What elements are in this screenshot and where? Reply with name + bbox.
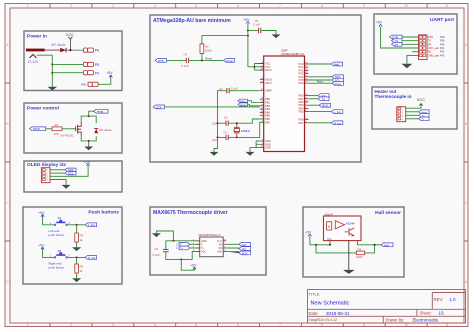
svg-text:Thermocouple in: Thermocouple in bbox=[375, 94, 412, 99]
net flag Heat bbox=[94, 109, 109, 113]
svg-text:P41: P41 bbox=[440, 47, 445, 50]
svg-text:+5V: +5V bbox=[38, 211, 45, 215]
net flag MOS input bbox=[30, 127, 46, 131]
net flag DTR bbox=[390, 35, 403, 39]
svg-text:C1: C1 bbox=[224, 115, 228, 119]
junction C5 tap bbox=[247, 30, 249, 32]
svg-text:2018-05-31: 2018-05-31 bbox=[326, 311, 350, 316]
svg-text:8: 8 bbox=[321, 323, 323, 327]
svg-text:OLED display i2c: OLED display i2c bbox=[27, 162, 67, 168]
net flag TX bbox=[318, 97, 329, 101]
ground bbox=[72, 247, 81, 251]
svg-text:+5V: +5V bbox=[243, 18, 250, 22]
section box: OLED display i2c bbox=[24, 161, 122, 192]
svg-text:M7 diode: M7 diode bbox=[99, 128, 112, 132]
resistor R5 1k bbox=[75, 264, 84, 273]
svg-text:+5V: +5V bbox=[84, 160, 91, 164]
wire SCK to flag bbox=[226, 252, 239, 253]
wire MOSI to PB2 bbox=[248, 104, 260, 105]
wire C4 to Reset flag bbox=[189, 59, 224, 61]
svg-text:8: 8 bbox=[321, 4, 323, 8]
section box: Push buttons bbox=[23, 207, 122, 284]
svg-text:Power control: Power control bbox=[27, 106, 59, 112]
svg-text:MAX6675 Thermocouple driver: MAX6675 Thermocouple driver bbox=[153, 210, 228, 216]
junction GND tap bbox=[88, 140, 90, 142]
power flag +5V uart bbox=[376, 21, 383, 27]
svg-text:Power in: Power in bbox=[27, 34, 47, 40]
ground bbox=[246, 152, 255, 156]
svg-text:Drawn By:: Drawn By: bbox=[386, 318, 405, 323]
svg-text:6: 6 bbox=[237, 4, 239, 8]
svg-text:1: 1 bbox=[27, 4, 29, 8]
wire pin1 to SDA bbox=[50, 169, 65, 171]
svg-text:Hall sensor: Hall sensor bbox=[375, 210, 401, 216]
op-amp U2 MAX6675ISA+T body bbox=[199, 233, 224, 257]
wire to R5 bbox=[76, 257, 78, 264]
junction GND node bbox=[172, 240, 174, 242]
wire S1 to L_but bbox=[67, 224, 85, 226]
U1 right pin names bbox=[298, 62, 304, 125]
svg-text:S2: S2 bbox=[58, 249, 62, 253]
svg-text:Hall: Hall bbox=[334, 62, 339, 66]
svg-text:P39: P39 bbox=[440, 40, 445, 43]
svg-text:A3144: A3144 bbox=[346, 221, 355, 225]
svg-text:M7 diode: M7 diode bbox=[52, 43, 66, 47]
junction VCC node bbox=[69, 49, 71, 51]
wire to P5 bbox=[52, 63, 83, 65]
svg-text:AVCC: AVCC bbox=[265, 68, 272, 72]
svg-text:MAX6675ISA+T: MAX6675ISA+T bbox=[199, 233, 221, 237]
svg-text:R_but: R_but bbox=[334, 121, 341, 125]
power flag VCC bbox=[66, 33, 74, 50]
U2 pin names bbox=[201, 240, 207, 254]
wire out pin to Hall flag bbox=[358, 241, 382, 245]
wire T- to pin2 bbox=[190, 243, 200, 245]
junction Heat tap bbox=[88, 115, 90, 117]
ground bbox=[402, 64, 413, 68]
section box: ATMega328p-AU bare minimum bbox=[150, 15, 361, 162]
net flag RX bbox=[318, 94, 329, 98]
wire R5 to ground bbox=[76, 273, 78, 278]
svg-text:P4: P4 bbox=[95, 71, 99, 75]
junction crystal bottom bbox=[236, 136, 238, 138]
wire VCC to header pin1 bbox=[406, 106, 421, 109]
UART header pin numbers bbox=[440, 36, 445, 57]
wire source loop bottom bbox=[81, 136, 96, 141]
section box: Power in bbox=[24, 31, 122, 91]
net flag MOS bbox=[319, 103, 330, 107]
junction VCC bus bbox=[254, 66, 256, 68]
wire to R4 bbox=[76, 225, 78, 233]
svg-text:Date:: Date: bbox=[309, 311, 319, 316]
svg-text:1.0: 1.0 bbox=[450, 297, 457, 302]
wire pin3 to T+ bbox=[406, 114, 419, 116]
svg-text:AREF: AREF bbox=[265, 89, 272, 93]
wire C1 to PB6 bbox=[228, 119, 260, 123]
wire PD5 to L_but bbox=[309, 111, 332, 113]
svg-text:1: 1 bbox=[27, 323, 29, 327]
svg-text:L_but: L_but bbox=[334, 110, 341, 114]
wire pin4 to ground bbox=[50, 180, 66, 185]
net flag T+ bbox=[419, 114, 429, 118]
capacitor C5 0.1uF bbox=[253, 19, 261, 33]
ground bbox=[48, 87, 58, 91]
wire GND node to C6 bbox=[166, 241, 174, 250]
wire +5V stem bbox=[247, 24, 249, 67]
svg-text:DTR: DTR bbox=[158, 59, 164, 63]
wire pin2 to Heat bbox=[406, 111, 419, 113]
power flag +5V bbox=[106, 71, 113, 77]
svg-text:RX: RX bbox=[428, 43, 432, 46]
net flag DTR bbox=[155, 59, 166, 63]
ground bbox=[210, 152, 219, 156]
wire gnd rail to C2 bbox=[218, 123, 227, 137]
svg-text:SCK: SCK bbox=[242, 251, 248, 255]
section box: Power control bbox=[24, 103, 122, 153]
net flag Reset bbox=[224, 59, 235, 63]
wire GND_uart to ground bbox=[407, 55, 419, 63]
connector P6 bbox=[83, 48, 99, 53]
wire SO to flag bbox=[226, 243, 239, 245]
svg-text:New Schematic: New Schematic bbox=[311, 301, 350, 307]
svg-text:+5V: +5V bbox=[305, 230, 312, 234]
junction C2 gnd bbox=[217, 136, 219, 138]
connector J1 DC jack 12-24V bbox=[26, 49, 45, 64]
svg-text:10kΩ: 10kΩ bbox=[205, 49, 212, 53]
net flag SCL bbox=[332, 78, 344, 82]
junction out node bbox=[374, 244, 376, 246]
svg-text:VCC: VCC bbox=[66, 33, 74, 37]
ground bbox=[84, 141, 93, 150]
svg-text:3: 3 bbox=[112, 323, 114, 327]
wire DTR to header bbox=[402, 36, 419, 38]
svg-text:ADC7: ADC7 bbox=[265, 81, 272, 85]
ground bbox=[343, 270, 355, 274]
svg-text:SCL: SCL bbox=[68, 172, 74, 176]
svg-text:P38: P38 bbox=[440, 36, 445, 39]
resistor R3 10k bbox=[356, 248, 365, 260]
wire VCC bus to IC bbox=[248, 64, 264, 71]
wire PC6 to Reset bbox=[309, 82, 333, 84]
wire C6 to +5V rail bbox=[166, 252, 200, 260]
power flag +5V bbox=[84, 160, 91, 166]
net flag SCL bbox=[65, 172, 76, 176]
net flag R_but bbox=[331, 121, 343, 125]
svg-text:Reset: Reset bbox=[206, 57, 213, 60]
net flag MISO bbox=[238, 99, 248, 103]
svg-text:ATMega328p-AU bare minimum: ATMega328p-AU bare minimum bbox=[153, 18, 231, 24]
svg-text:10: 10 bbox=[404, 4, 408, 8]
svg-text:T-: T- bbox=[201, 243, 203, 246]
svg-text:B: B bbox=[6, 122, 8, 126]
svg-text:7: 7 bbox=[279, 4, 281, 8]
svg-text:T+: T+ bbox=[180, 247, 184, 250]
junction +5V tap bbox=[180, 258, 182, 260]
U1 right pin stubs bbox=[305, 64, 309, 123]
wire GND pin to ground bbox=[348, 241, 350, 270]
junction C1 gnd bbox=[217, 122, 219, 124]
svg-text:1/1: 1/1 bbox=[438, 310, 445, 315]
wire +5V to R2 bbox=[202, 36, 248, 44]
wire P3 to +5V bbox=[98, 77, 111, 84]
U1 left pin stubs bbox=[260, 64, 264, 148]
junction R2 rail tap bbox=[247, 35, 249, 37]
diode D1 M7 bbox=[45, 43, 66, 52]
svg-text:0.1uF: 0.1uF bbox=[153, 253, 160, 257]
diode D2 M7 flyback bbox=[94, 128, 112, 134]
net flag TX bbox=[392, 39, 403, 43]
wire to P4 bbox=[52, 72, 83, 74]
svg-text:push button: push button bbox=[49, 233, 65, 237]
connector thermocouple T- flag bbox=[176, 243, 190, 247]
svg-text:P43: P43 bbox=[440, 54, 445, 57]
wire NC stub bbox=[412, 51, 419, 53]
svg-text:7: 7 bbox=[279, 323, 281, 327]
net flag Hall bbox=[381, 243, 393, 247]
wire C2 to PB7 bbox=[228, 122, 264, 137]
wire diode to P6 bbox=[66, 49, 83, 51]
wire PD7 to R_but bbox=[309, 122, 332, 124]
net flag R_but bbox=[85, 256, 96, 260]
svg-text:/CS: /CS bbox=[218, 247, 223, 250]
connector P5 bbox=[83, 62, 99, 67]
net flag Reset bbox=[332, 82, 344, 86]
svg-text:GND_uart: GND_uart bbox=[428, 54, 440, 57]
svg-text:+5V: +5V bbox=[38, 244, 45, 248]
svg-text:P3: P3 bbox=[82, 83, 86, 87]
svg-text:MOS: MOS bbox=[322, 104, 329, 108]
wire gnd rail to C1 bbox=[218, 122, 227, 124]
power flag +5V hall bbox=[305, 230, 312, 236]
wire pin3 to +5V bbox=[50, 166, 88, 177]
svg-text:GND: GND bbox=[265, 146, 271, 150]
wire +5V to S2 bbox=[43, 250, 54, 258]
svg-text:P5: P5 bbox=[95, 63, 99, 67]
svg-text:PD7: PD7 bbox=[298, 121, 304, 125]
ground bbox=[152, 233, 161, 237]
svg-text:9: 9 bbox=[363, 323, 365, 327]
wire PD0 to RX bbox=[309, 95, 319, 97]
power flag +5V right button bbox=[38, 244, 45, 250]
wire ground to GND pin bbox=[156, 231, 199, 241]
U2 pin stubs bbox=[197, 241, 227, 252]
svg-text:L_but: L_but bbox=[88, 223, 95, 227]
title block bbox=[308, 290, 466, 324]
wire +5V to rail bbox=[181, 259, 194, 270]
wire T+ to pin3 bbox=[190, 247, 200, 249]
junction P4 tap bbox=[51, 72, 53, 74]
svg-text:+5V: +5V bbox=[190, 263, 197, 267]
svg-text:0.1uF: 0.1uF bbox=[231, 87, 238, 91]
crystal Y1 16MHz bbox=[234, 123, 250, 137]
svg-text:P40: P40 bbox=[440, 43, 445, 46]
net flag T- bbox=[419, 117, 429, 121]
svg-text:3: 3 bbox=[112, 4, 114, 8]
svg-text:9: 9 bbox=[363, 4, 365, 8]
svg-text:2: 2 bbox=[70, 4, 72, 8]
svg-text:T-: T- bbox=[422, 117, 424, 121]
U2 pin numbers bbox=[193, 239, 226, 252]
wire drain loop top bbox=[81, 116, 96, 123]
svg-text:Hall: Hall bbox=[384, 243, 389, 247]
svg-text:UART port: UART port bbox=[430, 17, 454, 23]
svg-text:PC6: PC6 bbox=[298, 81, 304, 85]
wire SCK to PB5 bbox=[165, 106, 260, 108]
U1 right pin numbers bbox=[305, 63, 308, 124]
svg-text:+5V: +5V bbox=[106, 71, 113, 75]
connector thermocouple T+ flag bbox=[176, 246, 190, 250]
ground bbox=[62, 185, 71, 189]
U1 left pin names bbox=[265, 62, 272, 150]
svg-text:16MHz: 16MHz bbox=[241, 129, 250, 133]
net flag Heat bbox=[419, 110, 429, 114]
transistor U3 A3144 hall sensor body bbox=[324, 212, 362, 240]
wire MOS to R1 bbox=[46, 128, 52, 130]
svg-text:12-24V: 12-24V bbox=[28, 60, 40, 64]
svg-text:DTR: DTR bbox=[428, 36, 433, 39]
svg-text:TX: TX bbox=[322, 97, 326, 101]
svg-text:PB7: PB7 bbox=[265, 120, 270, 124]
capacitor C3 0.1uF bbox=[219, 87, 238, 94]
pushbutton S2 bbox=[50, 249, 71, 258]
wire C3 to gnd rail bbox=[218, 91, 227, 123]
resistor R4 1k bbox=[75, 233, 84, 242]
svg-text:10kΩ: 10kΩ bbox=[356, 255, 363, 259]
pushbutton S1 bbox=[50, 216, 71, 225]
ground bbox=[272, 34, 281, 38]
node label Reset bbox=[317, 81, 324, 84]
net flag L_but bbox=[85, 223, 96, 227]
label left end push button bbox=[49, 229, 65, 237]
wire pin4 to T- bbox=[406, 118, 419, 120]
wire PD3 to MOS bbox=[309, 104, 320, 106]
junction P5 tap bbox=[51, 63, 53, 65]
wire +5V to VCC_uart pin bbox=[381, 27, 419, 48]
wire PD1 to TX bbox=[309, 98, 319, 100]
wire GND pins bus bbox=[250, 141, 260, 152]
net flag SO bbox=[239, 242, 251, 246]
svg-text:SCK: SCK bbox=[217, 251, 222, 254]
resistor R2 10k bbox=[200, 44, 212, 54]
svg-text:P42: P42 bbox=[440, 51, 445, 54]
svg-text:Push buttons: Push buttons bbox=[88, 210, 119, 216]
svg-text:PD5: PD5 bbox=[298, 110, 304, 114]
svg-text:RX: RX bbox=[395, 43, 399, 47]
svg-text:Electronoobs: Electronoobs bbox=[413, 318, 439, 323]
svg-text:0.1uF: 0.1uF bbox=[182, 64, 189, 68]
svg-text:SCK: SCK bbox=[156, 105, 162, 109]
net flag MOSI bbox=[238, 103, 248, 107]
connector H1 OLED header bbox=[41, 168, 50, 183]
svg-text:100: 100 bbox=[54, 132, 59, 136]
power flag +5V bbox=[190, 263, 197, 269]
net flag SDA bbox=[65, 168, 76, 172]
wire CS to flag bbox=[226, 247, 239, 250]
wire S2 to R_but bbox=[67, 256, 85, 258]
connector P4 bbox=[83, 71, 99, 76]
wire MISO to PB1 bbox=[248, 101, 260, 103]
capacitor C2 22pF bbox=[212, 131, 228, 142]
net flag CS bbox=[239, 247, 251, 251]
wire PC0 to Hall bbox=[309, 63, 332, 65]
transistor Q1 2N P5100 bbox=[60, 123, 81, 138]
wire R4 to ground bbox=[76, 242, 78, 247]
svg-text:MOS: MOS bbox=[33, 127, 40, 131]
power flag VCC heater bbox=[417, 98, 425, 106]
svg-text:11: 11 bbox=[445, 323, 449, 327]
svg-text:TITLE:: TITLE: bbox=[309, 291, 321, 296]
power flag +5V main bbox=[243, 18, 250, 24]
svg-text:Reset: Reset bbox=[226, 59, 233, 63]
wire pin2 to SCL bbox=[50, 172, 65, 174]
svg-text:Heat: Heat bbox=[97, 110, 104, 114]
svg-text:T+: T+ bbox=[201, 247, 205, 250]
wire +5V to Vcc pin bbox=[310, 237, 330, 245]
junction Vcc stub bbox=[329, 244, 331, 246]
svg-text:C4: C4 bbox=[184, 52, 188, 56]
net flag Hall bbox=[331, 62, 342, 66]
svg-text:6: 6 bbox=[237, 323, 239, 327]
junction pullup tap bbox=[315, 244, 317, 246]
UART header pin names bbox=[428, 36, 440, 57]
svg-text:2N P5100: 2N P5100 bbox=[60, 133, 74, 137]
wire R1 to gate bbox=[62, 128, 76, 130]
wire TX to header bbox=[402, 40, 419, 42]
wire to C5 bbox=[248, 30, 259, 32]
connector P2 UART header bbox=[419, 35, 428, 60]
svg-text:C6: C6 bbox=[155, 247, 159, 251]
wire DTR to C4 bbox=[167, 59, 187, 61]
op-amp U1 ATMEGA328P-AU body bbox=[264, 49, 305, 152]
wire PC5 to SCL bbox=[309, 79, 333, 81]
section box: UART port bbox=[374, 14, 457, 74]
svg-text:C2: C2 bbox=[224, 131, 228, 135]
svg-text:X: X bbox=[328, 224, 331, 229]
svg-text:NC: NC bbox=[428, 51, 432, 54]
section box: MAX6675 Thermocouple driver bbox=[150, 207, 266, 275]
net flag RX bbox=[392, 42, 403, 46]
svg-text:SO: SO bbox=[219, 243, 223, 246]
svg-text:Reset: Reset bbox=[317, 81, 324, 84]
svg-text:VCC: VCC bbox=[417, 98, 425, 102]
svg-text:0.1uF: 0.1uF bbox=[253, 23, 260, 27]
wire PC4 to SDA bbox=[309, 76, 333, 78]
svg-text:TX: TX bbox=[428, 40, 432, 43]
capacitor C4 0.1uF bbox=[182, 52, 189, 68]
label right end push button bbox=[49, 262, 65, 270]
svg-text:5: 5 bbox=[195, 4, 197, 8]
wire R2 to reset net bbox=[201, 53, 203, 60]
capacitor C6 0.1uF bbox=[153, 247, 169, 257]
power flag +5V left button bbox=[38, 211, 45, 217]
net flag L_but bbox=[331, 110, 343, 114]
svg-text:push button: push button bbox=[49, 266, 65, 270]
node label Reset bbox=[206, 57, 213, 60]
svg-text:4: 4 bbox=[154, 323, 156, 327]
svg-text:4: 4 bbox=[154, 4, 156, 8]
svg-text:EasyEDA V5.4.12: EasyEDA V5.4.12 bbox=[309, 318, 338, 322]
svg-text:+5V: +5V bbox=[376, 21, 383, 25]
svg-text:Reset: Reset bbox=[335, 83, 342, 86]
svg-text:2: 2 bbox=[70, 323, 72, 327]
svg-text:Sheet:: Sheet: bbox=[420, 310, 432, 315]
svg-text:10: 10 bbox=[404, 323, 408, 327]
wire RX to header bbox=[402, 43, 419, 45]
svg-text:P6: P6 bbox=[95, 49, 99, 53]
wire gnd rail down bbox=[214, 137, 218, 152]
section box: Hall sensor bbox=[303, 207, 404, 277]
wire +5V to S1 bbox=[43, 217, 54, 225]
